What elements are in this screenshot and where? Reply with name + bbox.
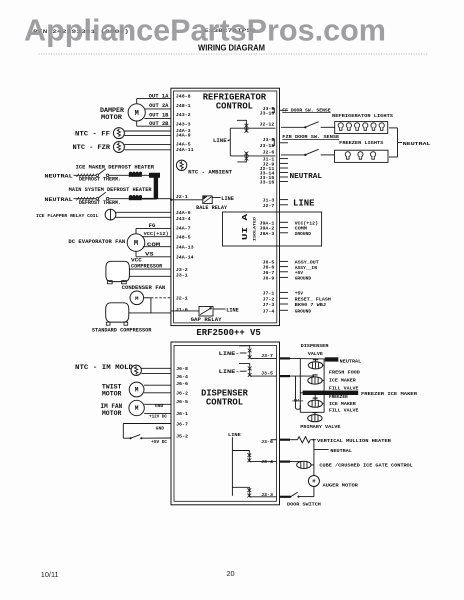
svg-text:J5-2: J5-2 bbox=[176, 434, 188, 440]
svg-text:AUGER MOTOR: AUGER MOTOR bbox=[323, 482, 358, 488]
wire flapper coil b bbox=[116, 216, 171, 218]
wire to LINE bbox=[212, 197, 220, 199]
svg-text:LINE: LINE bbox=[226, 306, 239, 313]
wire to gate valve bbox=[290, 461, 301, 463]
contact arm bottom bbox=[237, 160, 246, 162]
svg-text:J6-6: J6-6 bbox=[263, 265, 275, 271]
stub J3-6 bbox=[271, 439, 277, 441]
wire IM fan a bbox=[144, 403, 171, 405]
svg-text:J2-1: J2-1 bbox=[176, 296, 188, 302]
svg-text:OUT 2A: OUT 2A bbox=[149, 103, 169, 109]
svg-text:DAMPER: DAMPER bbox=[100, 107, 124, 114]
svg-text:M: M bbox=[135, 110, 139, 118]
defrost thermostat row2 bbox=[96, 197, 99, 200]
lights neutral bus bbox=[389, 127, 398, 129]
refrigerator control board outline (inner) bbox=[174, 91, 277, 323]
svg-text:J2-6: J2-6 bbox=[263, 150, 275, 156]
svg-text:J7-3: J7-3 bbox=[263, 302, 275, 308]
FF door switch blade bbox=[304, 126, 306, 128]
compressor foot bbox=[122, 281, 127, 284]
refrigerator light bulbs bbox=[338, 123, 384, 131]
wire VS bbox=[136, 256, 171, 258]
svg-text:ISOLATED: ISOLATED bbox=[254, 216, 258, 241]
svg-text:VCC(+12): VCC(+12) bbox=[295, 220, 319, 226]
svg-text:J48-5: J48-5 bbox=[176, 234, 191, 240]
u-link bbox=[296, 405, 301, 409]
damper motor wires OUT 1A/2A/1B/2B bbox=[136, 99, 138, 104]
svg-text:VS: VS bbox=[145, 251, 154, 257]
svg-text:M: M bbox=[135, 387, 139, 394]
svg-text:234: 234 bbox=[294, 400, 300, 404]
svg-text:J3-1: J3-1 bbox=[176, 273, 188, 279]
svg-text:10/11: 10/11 bbox=[41, 570, 59, 579]
wire to refrigerator lights bbox=[321, 126, 335, 128]
wire to bale relay bbox=[171, 199, 203, 201]
svg-text:J4A-13: J4A-13 bbox=[176, 244, 194, 250]
svg-text:+5V: +5V bbox=[295, 290, 303, 296]
internal relay contact J3-3 bbox=[247, 488, 251, 497]
wire J3-2 bbox=[129, 268, 171, 270]
wire twist a bbox=[144, 384, 171, 386]
svg-text:ICE MAKER: ICE MAKER bbox=[329, 401, 356, 407]
svg-text:20: 20 bbox=[227, 569, 235, 578]
wire NTC a bbox=[141, 367, 171, 369]
svg-text:+12V DC: +12V DC bbox=[149, 415, 167, 419]
wire to mullion heater bbox=[290, 439, 298, 441]
branch to J3-3 contact bbox=[232, 487, 249, 489]
svg-text:ERF2500++ V5: ERF2500++ V5 bbox=[196, 327, 261, 338]
thermistor NTC-FZR bbox=[113, 142, 124, 153]
branch to J3-4 contact bbox=[232, 451, 249, 455]
svg-text:J4A-9: J4A-9 bbox=[176, 133, 191, 139]
svg-text:J4A-6: J4A-6 bbox=[176, 210, 191, 216]
underline bbox=[282, 112, 330, 114]
relay GAP RELAY bbox=[199, 307, 213, 317]
thick stub J3-3 bbox=[280, 496, 291, 498]
auger motor M bbox=[308, 476, 319, 487]
internal line bus bbox=[231, 437, 233, 496]
svg-text:NEUTRAL: NEUTRAL bbox=[330, 448, 352, 454]
svg-text:FREEZER LIGHTS: FREEZER LIGHTS bbox=[339, 140, 383, 146]
wire COM bbox=[143, 246, 171, 248]
svg-text:MOTOR: MOTOR bbox=[102, 410, 122, 417]
primary valve solenoid bbox=[308, 412, 322, 422]
wire neutral row2 bbox=[74, 198, 96, 200]
svg-text:LINE: LINE bbox=[293, 198, 315, 208]
svg-text:RESET_ FLASH: RESET_ FLASH bbox=[295, 296, 331, 302]
dispenser control board outline (inner) bbox=[174, 346, 277, 502]
svg-text:DEFROST THERM.: DEFROST THERM. bbox=[79, 177, 121, 183]
door switch blade bbox=[289, 496, 291, 498]
svg-text:J7-1: J7-1 bbox=[263, 290, 275, 296]
svg-text:M: M bbox=[135, 405, 139, 412]
svg-text:M: M bbox=[312, 479, 315, 485]
wire OUT 1A bbox=[137, 98, 171, 100]
svg-text:GND: GND bbox=[156, 428, 165, 432]
svg-text:NEUTRAL: NEUTRAL bbox=[45, 173, 73, 179]
stub to rail bbox=[322, 403, 324, 405]
refrigerator lights box bbox=[335, 122, 388, 134]
svg-text:J43-4: J43-4 bbox=[176, 216, 191, 222]
svg-text:CONTROL: CONTROL bbox=[206, 398, 243, 408]
rail down from heater bbox=[313, 440, 315, 476]
stub to rail bbox=[322, 364, 324, 366]
svg-text:J6-5: J6-5 bbox=[176, 399, 188, 405]
thick black bus bar (heater common) bbox=[149, 173, 160, 199]
vertical mullion heater zigzag bbox=[298, 437, 311, 443]
svg-text:J6-4: J6-4 bbox=[176, 374, 188, 380]
svg-text:J4A-7: J4A-7 bbox=[176, 226, 191, 232]
wire to freezer lights bbox=[321, 154, 335, 156]
wire heater to bus bar bbox=[142, 174, 149, 176]
twist motor M bbox=[129, 382, 144, 397]
svg-text:DISPENSER: DISPENSER bbox=[301, 343, 329, 349]
svg-text:TWIST: TWIST bbox=[102, 383, 122, 390]
wire neutral row1 bbox=[74, 174, 96, 176]
svg-text:J1-3: J1-3 bbox=[263, 198, 275, 204]
svg-text:NEUTRAL: NEUTRAL bbox=[403, 141, 431, 147]
svg-text:REFRIGERATOR LIGHTS: REFRIGERATOR LIGHTS bbox=[332, 113, 393, 119]
wire J5-2 bbox=[141, 437, 171, 439]
VCC compressor body bbox=[106, 261, 130, 281]
svg-text:MOTOR: MOTOR bbox=[101, 114, 122, 121]
rail to door switch bbox=[313, 487, 315, 497]
svg-text:UI A: UI A bbox=[242, 213, 250, 240]
svg-text:J3-10: J3-10 bbox=[260, 110, 275, 116]
svg-text:J6-2: J6-2 bbox=[176, 390, 188, 396]
freezer lights box bbox=[335, 150, 389, 162]
svg-text:NTC - FZR: NTC - FZR bbox=[73, 144, 111, 151]
tick bbox=[292, 400, 303, 402]
svg-text:NEUTRAL: NEUTRAL bbox=[340, 358, 362, 364]
svg-text:J3-4: J3-4 bbox=[261, 459, 273, 465]
svg-text:J6-8: J6-8 bbox=[176, 366, 188, 372]
svg-text:J6-6: J6-6 bbox=[176, 381, 188, 387]
svg-text:VERTICAL MULLION HEATER: VERTICAL MULLION HEATER bbox=[317, 438, 391, 444]
relay contact (bottom) bbox=[245, 152, 249, 161]
svg-text:J3-8: J3-8 bbox=[263, 137, 275, 143]
svg-text:GROUND: GROUND bbox=[295, 276, 312, 282]
wire J1-6 bbox=[129, 312, 171, 314]
svg-text:MOTOR: MOTOR bbox=[102, 390, 122, 397]
wire to J3-7 bbox=[250, 357, 277, 359]
wire to J3-4 bbox=[249, 461, 276, 463]
black bar FREEZER ICE MAKER bbox=[303, 391, 359, 395]
dispenser valve solenoid bbox=[308, 359, 322, 369]
bracket J3-8/J3-11 bbox=[272, 139, 275, 146]
svg-text:FREEZER: FREEZER bbox=[329, 394, 348, 400]
svg-text:ICE FLAPPER RELAY COIL: ICE FLAPPER RELAY COIL bbox=[36, 213, 99, 219]
svg-text:M: M bbox=[134, 240, 138, 248]
svg-text:GROUND: GROUND bbox=[295, 231, 312, 237]
wire IM fan b bbox=[144, 412, 171, 414]
svg-text:STANDARD COMPRESSOR: STANDARD COMPRESSOR bbox=[92, 328, 152, 334]
wire to LINE bbox=[213, 308, 226, 310]
thermistor NTC-FF bbox=[113, 128, 124, 139]
wire to J3-5 bbox=[250, 375, 277, 377]
thick stub J3-5 bbox=[280, 375, 291, 377]
svg-text:ASSY_OUT: ASSY_OUT bbox=[295, 260, 319, 266]
wire to J3-3 bbox=[249, 496, 276, 498]
svg-text:PRIMARY VALVE: PRIMARY VALVE bbox=[300, 424, 340, 430]
svg-text:J6-7: J6-7 bbox=[263, 270, 275, 276]
wire to switch bbox=[123, 437, 130, 439]
svg-text:J6-7: J6-7 bbox=[176, 422, 188, 428]
svg-text:ICE MAKER DEFROST HEATER: ICE MAKER DEFROST HEATER bbox=[76, 164, 155, 170]
freezer light bulbs bbox=[345, 152, 376, 160]
fresh food fill valve solenoid bbox=[308, 375, 322, 384]
wire to heater row2 bbox=[109, 198, 129, 200]
junction at box edge bbox=[170, 199, 172, 201]
svg-text:NTC - AMBIENT: NTC - AMBIENT bbox=[188, 169, 233, 175]
black bar (neutral) bbox=[325, 357, 339, 361]
svg-text:J43-3: J43-3 bbox=[176, 121, 191, 127]
svg-text:AppliancePartsPros.com: AppliancePartsPros.com bbox=[24, 12, 386, 47]
right rail of valve group bbox=[323, 359, 325, 413]
compressor foot bbox=[106, 322, 110, 325]
damper motor M bbox=[128, 104, 145, 121]
wire flapper coil a bbox=[116, 211, 171, 213]
wire J6-7 bbox=[123, 423, 171, 425]
wire J3-1 bbox=[129, 275, 171, 277]
svg-text:J3-16: J3-16 bbox=[260, 179, 275, 185]
heater element row2 bbox=[129, 195, 142, 200]
svg-text:J2-7: J2-7 bbox=[263, 203, 275, 209]
wire into control J2-1 bbox=[157, 198, 171, 200]
wire NTC-FZR b bbox=[124, 149, 170, 151]
svg-text:J6-1: J6-1 bbox=[176, 411, 188, 417]
svg-text:NEUTRAL: NEUTRAL bbox=[45, 197, 73, 203]
wire NTC-FF a bbox=[124, 130, 170, 132]
thick stub J3-7 bbox=[280, 357, 291, 359]
wire freezer ice maker row bbox=[300, 392, 302, 394]
wire FZR door switch bbox=[281, 154, 305, 156]
compressor foot bbox=[108, 281, 113, 284]
svg-text:+5V DC: +5V DC bbox=[151, 441, 167, 445]
bracket J3-9/J3-10 bbox=[272, 108, 275, 112]
svg-text:DEFROST THERM.: DEFROST THERM. bbox=[79, 200, 121, 206]
svg-text:GROUND: GROUND bbox=[295, 308, 312, 314]
svg-text:GND: GND bbox=[155, 405, 164, 409]
wire VCC(+12) bbox=[143, 236, 171, 238]
stub to rail bbox=[322, 380, 325, 382]
svg-text:J9A-2: J9A-2 bbox=[260, 226, 275, 232]
svg-text:COM: COM bbox=[147, 242, 160, 248]
standard compressor body bbox=[106, 303, 129, 322]
freezer fill valve solenoid bbox=[308, 395, 322, 407]
svg-text:OUT 1B: OUT 1B bbox=[149, 113, 169, 119]
wire NTC-FZR a bbox=[124, 143, 170, 145]
wire to heater row1 bbox=[109, 174, 129, 176]
svg-text:WIRING DIAGRAM: WIRING DIAGRAM bbox=[198, 44, 265, 53]
svg-text:LINE-: LINE- bbox=[219, 350, 240, 357]
relay coil symbol bbox=[105, 209, 116, 220]
svg-text:CONDENSER FAN: CONDENSER FAN bbox=[122, 285, 166, 291]
svg-text:J48-1: J48-1 bbox=[176, 103, 191, 109]
hatched neutral wire marks bbox=[77, 174, 79, 177]
defrost thermostat row1 bbox=[96, 174, 99, 177]
internal relay (door light circuits) bbox=[230, 127, 275, 129]
svg-text:IM FAN: IM FAN bbox=[101, 403, 123, 410]
thick stub J3-4 bbox=[280, 461, 291, 463]
FZR door switch blade bbox=[304, 154, 306, 156]
wire junction down bbox=[150, 298, 152, 313]
svg-text:DOOR SWITCH: DOOR SWITCH bbox=[287, 502, 321, 508]
thermistor NTC-AMBIENT bbox=[176, 160, 186, 170]
svg-text:BK90 7 WBJ: BK90 7 WBJ bbox=[295, 302, 326, 308]
svg-text:J9A-3: J9A-3 bbox=[260, 231, 275, 237]
svg-text:J2-12: J2-12 bbox=[260, 122, 275, 128]
svg-text:FILL VALVE: FILL VALVE bbox=[329, 385, 359, 391]
svg-text:J4A-5: J4A-5 bbox=[176, 142, 191, 148]
thermistor NTC-IM MOLD bbox=[131, 365, 141, 375]
internal relay contact J3-4 bbox=[247, 453, 251, 462]
wire to FF fill valve bbox=[290, 375, 314, 377]
svg-text:J4A-11: J4A-11 bbox=[176, 147, 194, 153]
svg-text:DC EVAPORATOR FAN: DC EVAPORATOR FAN bbox=[68, 239, 125, 245]
svg-text:NTC - FF: NTC - FF bbox=[75, 130, 110, 137]
svg-text:VALVE: VALVE bbox=[308, 351, 323, 357]
cube/crushed gate solenoid bbox=[301, 461, 307, 463]
svg-text:J2-1: J2-1 bbox=[176, 194, 188, 200]
thick wire heater to bar bbox=[142, 198, 157, 200]
relay contact (top) bbox=[245, 124, 249, 133]
wire J1-6 to gap relay bbox=[171, 310, 199, 312]
bottom rail bbox=[300, 411, 324, 413]
dashed wire to J2-1 bbox=[151, 297, 171, 299]
svg-text:CONTROL: CONTROL bbox=[216, 101, 253, 111]
svg-text:J6-9: J6-9 bbox=[263, 275, 275, 281]
valve bbox=[297, 461, 311, 468]
wire NTC-FF b bbox=[124, 135, 170, 137]
svg-text:COMM: COMM bbox=[295, 226, 308, 232]
svg-text:MAIN SYSTEM DEFROST HEATER: MAIN SYSTEM DEFROST HEATER bbox=[69, 187, 153, 193]
branch to NEUTRAL bbox=[314, 449, 329, 451]
underline bbox=[282, 138, 339, 140]
wire condenser fan bbox=[144, 297, 151, 299]
wire OUT 1B bbox=[144, 117, 171, 119]
wire OUT 2B bbox=[137, 125, 171, 127]
contact arm top bbox=[237, 120, 247, 124]
heater element row1 bbox=[129, 172, 142, 177]
svg-text:NEUTRAL: NEUTRAL bbox=[290, 173, 323, 181]
svg-text:FRESH FOOD: FRESH FOOD bbox=[329, 369, 360, 375]
svg-text:J9A-1: J9A-1 bbox=[260, 220, 275, 226]
svg-text:J1-6: J1-6 bbox=[176, 307, 188, 313]
left rails of valve group bbox=[299, 359, 301, 413]
svg-text:FREEZER ICE MAKER: FREEZER ICE MAKER bbox=[361, 391, 417, 397]
wire door switch to auger bbox=[299, 496, 314, 498]
refrigerator control board outline (outer) bbox=[171, 88, 280, 325]
svg-text:CUBE /CRUSHED ICE GATE CONTROL: CUBE /CRUSHED ICE GATE CONTROL bbox=[319, 463, 412, 469]
header rule bbox=[39, 53, 428, 55]
svg-text:FILL VALVE: FILL VALVE bbox=[329, 408, 359, 414]
wire twist b bbox=[144, 392, 171, 394]
DC evaporator fan motor M bbox=[127, 234, 145, 252]
svg-text:LINE: LINE bbox=[221, 195, 234, 202]
stub to rail bbox=[310, 464, 314, 466]
condenser fan motor M bbox=[130, 291, 144, 305]
svg-text:J6-5: J6-5 bbox=[263, 259, 275, 265]
svg-text:OUT 2B: OUT 2B bbox=[149, 121, 169, 127]
svg-text:J7-2: J7-2 bbox=[263, 296, 275, 302]
svg-text:ICE MAKER: ICE MAKER bbox=[329, 378, 356, 384]
svg-text:J3-2: J3-2 bbox=[176, 267, 188, 273]
svg-text:BALE RELAY: BALE RELAY bbox=[196, 205, 228, 211]
svg-text:GAP RELAY: GAP RELAY bbox=[191, 317, 223, 323]
thick stub J3-6 bbox=[280, 439, 291, 441]
svg-text:J43-2: J43-2 bbox=[176, 112, 191, 118]
svg-text:FG: FG bbox=[149, 223, 156, 229]
svg-text:NTC - IM MOLD: NTC - IM MOLD bbox=[75, 364, 133, 371]
wire NTC b bbox=[141, 373, 171, 375]
svg-text:J4A-14: J4A-14 bbox=[176, 254, 194, 260]
wire FF door switch bbox=[281, 126, 305, 128]
relay BALE RELAY bbox=[203, 196, 212, 204]
svg-text:LINE-: LINE- bbox=[213, 137, 230, 144]
wire FG bbox=[136, 227, 171, 229]
svg-text:LINE: LINE bbox=[228, 432, 241, 438]
svg-text:OUT 1A: OUT 1A bbox=[149, 94, 170, 100]
UI A isolated interface box bbox=[223, 212, 322, 246]
svg-text:LINE-: LINE- bbox=[219, 368, 240, 375]
compressor foot bbox=[124, 322, 128, 325]
svg-text:J48-8: J48-8 bbox=[176, 93, 191, 99]
svg-text:ASSY__IN: ASSY__IN bbox=[295, 265, 317, 271]
svg-text:+5V: +5V bbox=[295, 270, 303, 276]
IM fan motor M bbox=[129, 400, 144, 415]
dispenser control board outline (outer) bbox=[171, 342, 280, 505]
wire to dispenser valve bbox=[290, 357, 325, 360]
svg-text:VCC(+12): VCC(+12) bbox=[144, 231, 169, 237]
wire OUT 2A bbox=[145, 108, 171, 110]
svg-text:J7-4: J7-4 bbox=[263, 308, 275, 314]
right edge connector stubs bbox=[280, 109, 289, 111]
